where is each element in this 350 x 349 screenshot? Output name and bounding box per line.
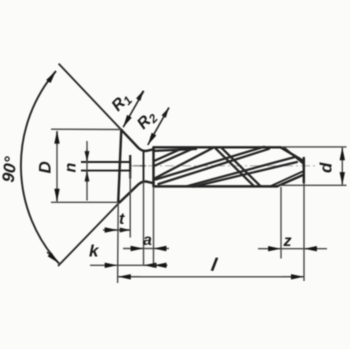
d dimension line (341, 148, 343, 185)
t dimension line (103, 229, 130, 231)
k dimension arrows (90, 264, 117, 266)
tip bottom chamfer (277, 175, 304, 187)
R2 leader top arrow (164, 108, 169, 117)
svg-text:k: k (89, 242, 100, 261)
stripe P2a (156, 147, 265, 180)
svg-text:90°: 90° (0, 155, 21, 183)
neck boundary line (143, 151, 145, 182)
d dimension arrows (341, 148, 343, 160)
stripe under top edge (155, 149, 196, 151)
stripe P3b (194, 162, 298, 187)
t dimension arrows (104, 229, 117, 231)
stripe P1b (154, 149, 193, 166)
svg-text:z: z (283, 233, 292, 250)
svg-text:D: D (36, 161, 55, 173)
slot bottom line (81, 170, 130, 172)
a dimension line gap (144, 248, 154, 250)
D dimension line (56, 131, 58, 201)
stripe P1a (154, 148, 184, 161)
n dimension line (86, 141, 88, 201)
R1 leader (123, 91, 144, 127)
head face extension down (117, 202, 120, 283)
slot lines (81, 155, 130, 179)
thread start extension down (153, 186, 155, 267)
tip top chamfer inner (285, 148, 304, 164)
centerline (131, 165, 315, 167)
svg-text:t: t (119, 211, 125, 228)
D extension top (51, 128, 121, 130)
slot bottom cap (129, 155, 131, 179)
tip face (303, 158, 305, 183)
stripe P2b (159, 149, 270, 184)
stripe D2 (222, 148, 261, 186)
head cone top edge (121, 130, 153, 151)
d extension top (282, 146, 347, 148)
z extension left (280, 187, 282, 259)
neck boundary extension down (143, 182, 145, 267)
k dimension line (118, 264, 144, 266)
shank top edge (154, 146, 281, 148)
arc arrow bottom (47, 252, 59, 263)
tip bottom chamfer inner (271, 171, 304, 186)
l dimension arrows (118, 276, 140, 278)
a dimension arrows (123, 248, 143, 250)
shank left face (152, 147, 154, 186)
cone extension line bottom (58, 202, 120, 266)
D dimension arrows (56, 131, 58, 145)
stripe P3a (187, 157, 295, 186)
z dimension arrows (258, 248, 281, 250)
tip top chamfer (281, 147, 304, 161)
head face (118, 130, 121, 203)
n dimension arrows (86, 149, 88, 161)
thread stripes (154, 147, 297, 187)
90 degree arc (21, 71, 59, 264)
shank bottom edge (154, 185, 278, 187)
stripe D1 (215, 148, 254, 186)
slot top line (81, 161, 130, 163)
stripe P0 (155, 148, 214, 179)
D extension bottom (51, 201, 118, 203)
cone extension line top (59, 64, 122, 130)
l dimension line (118, 276, 304, 278)
d extension bottom (279, 184, 347, 186)
head cone bottom edge (120, 182, 154, 203)
tip extension down (303, 183, 305, 281)
z dimension line (281, 248, 304, 250)
slot depth extension down (129, 172, 131, 238)
svg-text:d: d (317, 162, 336, 173)
svg-text:a: a (143, 232, 152, 249)
arc arrow top (48, 71, 56, 82)
R1 leader top arrow (138, 91, 143, 100)
centerline dash at neck (134, 165, 147, 167)
svg-text:n: n (63, 163, 80, 173)
R2 leader (148, 108, 169, 146)
